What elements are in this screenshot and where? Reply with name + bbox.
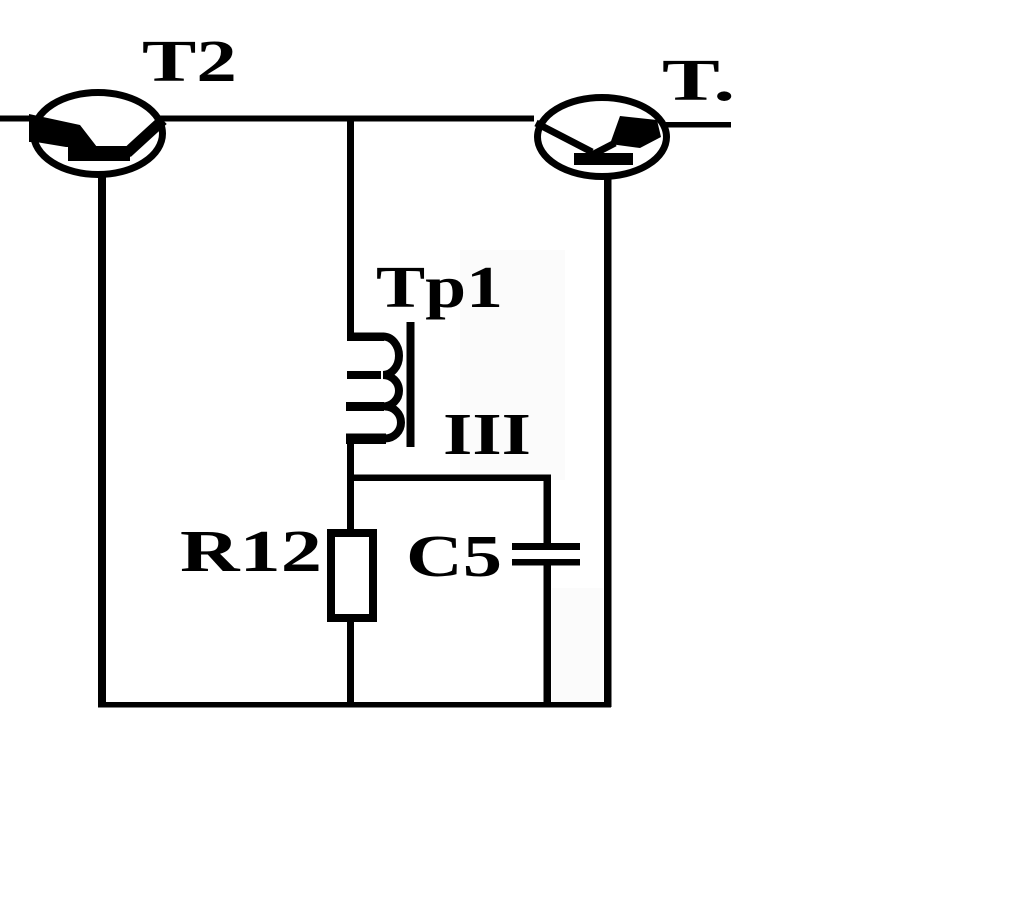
- svg-text:R12: R12: [180, 518, 322, 584]
- svg-text:Tp1: Tp1: [376, 254, 503, 320]
- svg-text:T2: T2: [142, 28, 237, 94]
- svg-text:T.: T.: [662, 47, 735, 113]
- svg-text:III: III: [443, 401, 531, 467]
- svg-text:C5: C5: [406, 523, 502, 589]
